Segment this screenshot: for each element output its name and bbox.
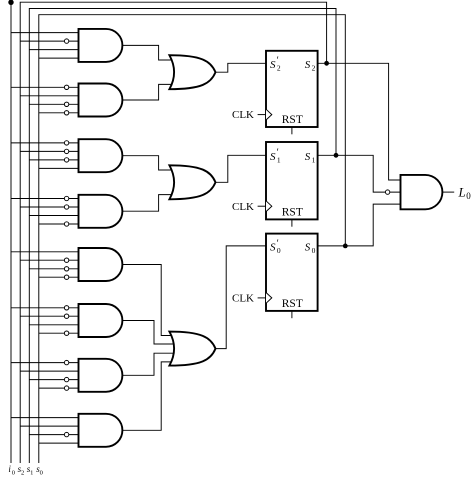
wire AND6 input s0 [39, 332, 80, 334]
wire AND5 input s0 [39, 276, 80, 278]
wire RST stub FF2 [291, 219, 293, 226]
or gate OR1 [169, 55, 215, 89]
wire i0 bus [10, 2, 12, 463]
inverter bubble AND4 input s0 [64, 222, 68, 226]
wire CLK to FF3 [258, 297, 266, 299]
and gate AND1 [79, 29, 123, 62]
wire AND2 input s1 [29, 103, 80, 105]
wire AND1 input s0 [39, 57, 80, 59]
inverter bubble AND5 input s0 [64, 275, 68, 279]
wire AND8 output [121, 362, 176, 430]
wire AND7 input s2 [20, 370, 80, 372]
and gate AND5 [79, 248, 123, 281]
wire AND2 input s2 [20, 95, 80, 97]
inverter bubble AND4 input s2 [64, 205, 68, 209]
wire AND6 input i0 [11, 307, 80, 309]
wire AND1 input i0 [11, 32, 80, 34]
wire AND7 output [121, 353, 176, 375]
wire AND2 input i0 [11, 86, 80, 88]
wire AND3 input s1 [29, 159, 80, 161]
and gate AND8 [79, 414, 123, 447]
wire AND7 input s0 [39, 387, 80, 389]
junction S0 [343, 244, 348, 249]
or gate OR2 [169, 165, 215, 199]
wire AND7 input i0 [11, 362, 80, 364]
wire AND8 input s2 [20, 425, 80, 427]
svg-text:CLK: CLK [232, 201, 254, 213]
inverter bubble AND2 input s0 [64, 111, 68, 115]
wire AND6 input s1 [29, 324, 80, 326]
svg-text:S: S [305, 242, 311, 254]
wire AND8 input s0 [39, 442, 80, 444]
and gate AND7 [79, 359, 123, 392]
wire CLK to FF1 [258, 114, 266, 116]
wire AND6 input s2 [20, 315, 80, 317]
svg-text:S: S [305, 151, 311, 163]
svg-text:S: S [270, 242, 276, 254]
svg-text:S: S [305, 59, 311, 71]
wire AND5 output [121, 265, 176, 336]
wire AND3 input i0 [11, 142, 80, 144]
and gate AND2 [79, 84, 123, 117]
wire RST stub FF3 [291, 311, 293, 318]
svg-text:2: 2 [277, 64, 281, 73]
inverter bubble AND5 input s2 [64, 258, 68, 262]
inverter bubble AND8 input s1 [64, 432, 68, 436]
junction S1 [334, 153, 339, 158]
svg-text:RST: RST [282, 298, 303, 310]
wire AND5 input s2 [20, 259, 80, 261]
wire OR1 to S2' input [215, 63, 267, 72]
svg-text:RST: RST [282, 114, 303, 126]
svg-text:0: 0 [40, 469, 43, 476]
inverter bubble AND6 input i0 [64, 306, 68, 310]
wire S0 output to L0 gate [318, 204, 402, 246]
svg-text:0: 0 [466, 191, 471, 201]
wire AND8 input s1 [29, 434, 80, 436]
wire AND3 input s0 [39, 167, 80, 169]
svg-text:L: L [458, 184, 466, 199]
wire AND6 output [121, 321, 176, 345]
wire AND2 input s0 [39, 112, 80, 114]
svg-text:1: 1 [30, 469, 33, 476]
and gate AND3 [79, 139, 123, 172]
wire AND1 input s1 [29, 49, 80, 51]
wire s0 feedback bus [39, 15, 346, 463]
svg-text:S: S [270, 151, 276, 163]
svg-text:0: 0 [312, 246, 316, 255]
wire s2 feedback bus [20, 2, 326, 463]
wire S1 output to L0 gate [318, 155, 402, 192]
wire AND7 input s1 [29, 379, 80, 381]
wire AND4 input i0 [11, 198, 80, 200]
svg-text:1: 1 [312, 156, 316, 165]
or gate OR3 [169, 332, 215, 366]
and gate AND6 [79, 304, 123, 337]
wire CLK to FF2 [258, 205, 266, 207]
svg-text:CLK: CLK [232, 109, 254, 121]
clock triangle FF S1 [266, 201, 272, 212]
clock triangle FF S2 [266, 109, 272, 120]
wire AND1 output [121, 45, 176, 60]
clock triangle FF S0 [266, 293, 272, 304]
wire AND4 input s0 [39, 223, 80, 225]
wire AND1 input s2 [20, 40, 80, 42]
wire RST stub FF1 [291, 127, 293, 134]
inverter bubble AND7 input s1 [64, 377, 68, 381]
wire AND8 input i0 [11, 417, 80, 419]
wire L0 output [441, 191, 454, 193]
inverter bubble AND1 input s2 [64, 39, 68, 43]
wire OR3 to S0' input [215, 246, 267, 349]
wire AND4 input s2 [20, 206, 80, 208]
inverter bubble AND7 input s0 [64, 386, 68, 390]
svg-text:1: 1 [277, 156, 281, 165]
svg-text:0: 0 [12, 469, 15, 476]
flip-flop S1 box [266, 142, 318, 219]
wire AND4 input s1 [29, 215, 80, 217]
inverter bubble AND7 input i0 [64, 360, 68, 364]
svg-text:2: 2 [312, 64, 316, 73]
and gate U-L0 [401, 175, 443, 209]
inverter bubble AND3 input i0 [64, 141, 68, 145]
inverter bubble L0 gate input S1 [385, 190, 389, 194]
wire AND5 input i0 [11, 251, 80, 253]
wire AND2 output [121, 84, 176, 100]
input terminal i0 [8, 0, 13, 5]
wire AND3 output [121, 156, 176, 170]
wire s1 feedback bus [29, 9, 336, 464]
junction S2 [324, 61, 329, 66]
svg-text:S: S [270, 59, 276, 71]
wire OR2 to S1' input [215, 155, 267, 182]
flip-flop S0 box [266, 234, 318, 311]
wire AND4 output [121, 195, 176, 212]
inverter bubble AND2 input i0 [64, 85, 68, 89]
inverter bubble AND3 input s2 [64, 149, 68, 153]
inverter bubble AND4 input i0 [64, 196, 68, 200]
and gate AND4 [79, 195, 123, 228]
flip-flop S2 box [266, 51, 318, 127]
inverter bubble AND3 input s1 [64, 158, 68, 162]
wire AND3 input s2 [20, 150, 80, 152]
wire AND5 input s1 [29, 268, 80, 270]
svg-text:0: 0 [277, 246, 281, 255]
inverter bubble AND6 input s0 [64, 331, 68, 335]
inverter bubble AND5 input s1 [64, 267, 68, 271]
svg-text:CLK: CLK [232, 293, 254, 305]
svg-text:RST: RST [282, 206, 303, 218]
svg-text:2: 2 [21, 469, 24, 476]
inverter bubble AND2 input s1 [64, 102, 68, 106]
wire S2 output to L0 gate [318, 63, 402, 180]
inverter bubble AND6 input s2 [64, 314, 68, 318]
